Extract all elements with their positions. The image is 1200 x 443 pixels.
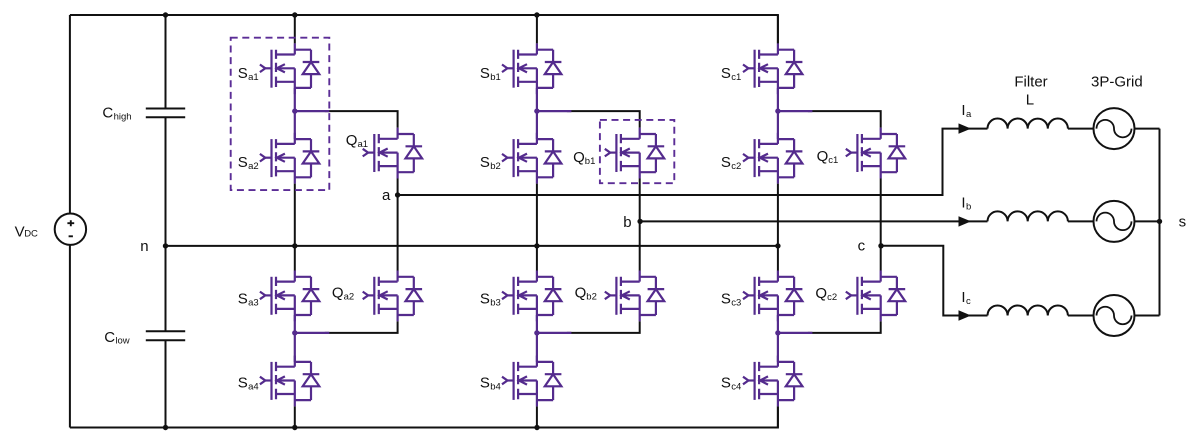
inductor L phase c — [988, 305, 1068, 315]
capacitor Clow — [146, 331, 185, 340]
svg-text:C: C — [102, 105, 113, 122]
svg-text:c1: c1 — [828, 155, 838, 166]
wire n rail to Sb3 drain — [536, 246, 538, 271]
svg-text:c: c — [966, 296, 971, 307]
svg-text:c4: c4 — [731, 382, 741, 393]
svg-text:c: c — [858, 237, 866, 254]
svg-text:S: S — [238, 375, 248, 392]
transistor Sa1 — [260, 43, 319, 94]
transistor Sb4 — [502, 356, 561, 407]
wire top DC+ rail — [70, 15, 778, 43]
wire Sc2 source to n rail — [777, 184, 779, 246]
svg-text:n: n — [140, 238, 148, 255]
node s — [1157, 219, 1162, 224]
svg-text:C: C — [104, 329, 115, 346]
node c — [878, 243, 883, 248]
wire Qa2 source to Sa3/Sa4 midpoint — [325, 321, 398, 333]
wire Sb3-Sb4 purple link — [536, 315, 538, 362]
svg-text:I: I — [961, 289, 965, 306]
svg-text:c2: c2 — [827, 292, 837, 303]
wire midpoint stub lower a — [295, 332, 330, 334]
wire Sa1-Sa2 purple link — [294, 88, 296, 139]
node DC+ / Sb1 junction — [534, 12, 539, 17]
svg-text:a4: a4 — [248, 382, 259, 393]
wire node a to filter — [398, 129, 988, 195]
transistor Sb3 — [502, 271, 561, 322]
wire Qb1 source to node b to Qb2 drain — [639, 179, 641, 271]
svg-text:S: S — [480, 375, 490, 392]
current arrow Ib — [959, 216, 972, 226]
svg-text:Q: Q — [815, 285, 827, 302]
svg-text:a2: a2 — [248, 161, 259, 172]
svg-text:b1: b1 — [490, 72, 501, 83]
svg-text:Q: Q — [573, 149, 585, 166]
svg-text:S: S — [238, 154, 248, 171]
inductor L phase a — [988, 119, 1068, 129]
wire VDC column lower — [69, 245, 71, 428]
transistor Sc3 — [743, 271, 802, 322]
AC grid source phase c — [1094, 295, 1135, 336]
wire grid source b to s bus — [1135, 220, 1160, 222]
wire Sc4 source to DC- rail — [777, 406, 779, 427]
node n / Sb junction — [534, 243, 539, 248]
svg-text:S: S — [238, 291, 248, 308]
node Sc1/Sc2 midpoint — [775, 108, 780, 113]
wire Sa1/Sa2 midpoint to Qa1 drain — [325, 111, 398, 128]
transistor Sc2 — [743, 133, 802, 184]
svg-text:high: high — [114, 112, 132, 123]
svg-text:low: low — [115, 336, 129, 347]
svg-text:b4: b4 — [490, 382, 501, 393]
svg-text:a: a — [382, 187, 391, 204]
dashed box Sa1/Sa2 pair — [231, 38, 330, 190]
svg-text:c3: c3 — [731, 298, 741, 309]
node n / cap junction — [163, 243, 168, 248]
wire capacitor column upper — [165, 15, 167, 109]
wire Sc1/Sc2 midpoint to Qc1 drain — [808, 111, 881, 128]
svg-text:c1: c1 — [731, 72, 741, 83]
current arrow Ic — [959, 310, 972, 320]
svg-text:a1: a1 — [248, 72, 259, 83]
wire midpoint stub upper c — [778, 110, 813, 112]
wire Sa3-Sa4 purple link — [294, 315, 296, 362]
node Sb3/Sb4 midpoint — [534, 330, 539, 335]
svg-text:a: a — [966, 109, 972, 120]
wire VDC column upper — [69, 15, 71, 214]
wire Qb2 source to Sb3/Sb4 midpoint — [567, 321, 640, 333]
transistor Sb2 — [502, 133, 561, 184]
wire capacitor column lower — [165, 340, 167, 427]
svg-text:a3: a3 — [248, 298, 259, 309]
svg-text:S: S — [721, 291, 731, 308]
svg-text:S: S — [721, 375, 731, 392]
wire Sb4 source to DC- rail — [536, 406, 538, 427]
transistor Sa2 — [260, 133, 319, 184]
wire Qc1 source to node c to Qc2 drain — [880, 179, 882, 271]
svg-text:b: b — [623, 214, 631, 231]
svg-text:Filter: Filter — [1014, 74, 1047, 91]
svg-text:s: s — [1179, 214, 1187, 231]
wire node c to filter — [881, 246, 988, 316]
svg-text:DC: DC — [24, 229, 38, 240]
inductor L phase b — [988, 211, 1068, 221]
node n / Sc junction — [775, 243, 780, 248]
wire s bus vertical — [1159, 129, 1161, 316]
wire n rail to Sc3 drain — [777, 246, 779, 271]
transistor Sc4 — [743, 356, 802, 407]
node DC- / cap junction — [163, 425, 168, 430]
node DC- / Sb4 junction — [534, 425, 539, 430]
wire Sc column top feed — [777, 15, 779, 43]
svg-text:S: S — [721, 154, 731, 171]
transistor Sa4 — [260, 356, 319, 407]
wire Sb1-Sb2 purple link — [536, 88, 538, 139]
wire inductor to grid source c — [1068, 315, 1094, 317]
wire Sb1/Sb2 midpoint to Qb1 drain — [567, 111, 640, 128]
transistor Qb1 — [605, 128, 664, 179]
transistor Qc1 — [846, 128, 905, 179]
node Sc3/Sc4 midpoint — [775, 330, 780, 335]
wire n rail to Sa3 drain — [294, 246, 296, 271]
wire Sb2 source to n rail — [536, 184, 538, 246]
transistor Sb1 — [502, 43, 561, 94]
node Sa3/Sa4 midpoint — [292, 330, 297, 335]
svg-text:b1: b1 — [585, 156, 596, 167]
svg-text:S: S — [480, 154, 490, 171]
wire inductor to grid source b — [1068, 220, 1094, 222]
svg-text:Q: Q — [575, 285, 587, 302]
wire grid source a to s bus — [1135, 128, 1160, 130]
node b — [637, 219, 642, 224]
svg-text:3P-Grid: 3P-Grid — [1091, 74, 1143, 91]
node DC+ / Sa1 junction — [292, 12, 297, 17]
wire inductor to grid source a — [1068, 128, 1094, 130]
node n / Sa junction — [292, 243, 297, 248]
svg-text:c2: c2 — [731, 161, 741, 172]
voltage source VDC — [55, 214, 86, 245]
wire midpoint stub lower b — [537, 332, 572, 334]
wire midpoint stub lower c — [778, 332, 813, 334]
dashed box Qb1 — [600, 120, 674, 183]
transistor Qa1 — [363, 128, 422, 179]
wire Sc1-Sc2 purple link — [777, 88, 779, 139]
svg-text:a2: a2 — [344, 292, 355, 303]
wire Sb column top feed — [536, 15, 538, 43]
transistor Qa2 — [363, 271, 422, 322]
node Sb1/Sb2 midpoint — [534, 108, 539, 113]
svg-text:a1: a1 — [358, 139, 369, 150]
AC grid source phase b — [1094, 201, 1135, 242]
wire node b to filter — [640, 220, 987, 222]
svg-text:b2: b2 — [586, 292, 597, 303]
node a — [395, 192, 400, 197]
svg-text:Q: Q — [332, 285, 344, 302]
wire Sa4 source to DC- rail — [294, 406, 296, 427]
svg-text:Q: Q — [817, 148, 829, 165]
node DC- / Sa4 junction — [292, 425, 297, 430]
wire midpoint stub upper a — [295, 110, 330, 112]
svg-text:b2: b2 — [490, 161, 501, 172]
wire Qc2 source to Sc3/Sc4 midpoint — [808, 321, 881, 333]
capacitor Chigh — [146, 109, 185, 118]
transistor Qb2 — [605, 271, 664, 322]
wire neutral rail n — [166, 245, 778, 247]
wire Sa column top feed — [294, 15, 296, 43]
svg-text:S: S — [480, 291, 490, 308]
svg-text:L: L — [1026, 92, 1034, 109]
transistor Qc2 — [846, 271, 905, 322]
wire Sc3-Sc4 purple link — [777, 315, 779, 362]
wire capacitor column middle — [165, 117, 167, 331]
AC grid source phase a — [1094, 108, 1135, 149]
svg-text:I: I — [961, 195, 965, 212]
svg-text:I: I — [961, 102, 965, 119]
svg-text:V: V — [15, 223, 25, 240]
wire grid source c to s bus — [1135, 315, 1160, 317]
svg-text:S: S — [721, 65, 731, 82]
svg-text:S: S — [480, 65, 490, 82]
current arrow Ia — [959, 123, 972, 133]
svg-text:b3: b3 — [490, 298, 501, 309]
wire midpoint stub upper b — [537, 110, 572, 112]
node DC+ / cap junction — [163, 12, 168, 17]
wire Sa2 source to n rail — [294, 184, 296, 246]
svg-text:b: b — [966, 202, 971, 213]
wire bottom DC- rail — [70, 406, 778, 427]
transistor Sa3 — [260, 271, 319, 322]
wire Qa1 source to node a to Qa2 drain — [397, 179, 399, 271]
node Sa1/Sa2 midpoint — [292, 108, 297, 113]
svg-text:S: S — [238, 65, 248, 82]
transistor Sc1 — [743, 43, 802, 94]
svg-text:Q: Q — [346, 132, 358, 149]
